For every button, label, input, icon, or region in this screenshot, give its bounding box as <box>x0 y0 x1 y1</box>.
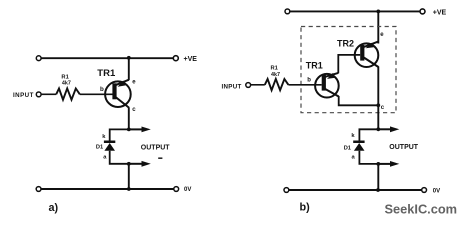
arrow upper output (b) <box>390 126 399 132</box>
wire: +VE top rail (b) <box>290 10 421 12</box>
terminal +VE right open circle (b) <box>420 9 425 14</box>
terminal +VE left open circle (b) <box>285 9 290 14</box>
junction dot on 0V rail (a) <box>127 187 131 191</box>
transistor TR2 base bar (b) <box>360 45 364 61</box>
svg-text:TR1: TR1 <box>306 61 323 71</box>
wire: diode anode to lower node (b) <box>359 151 378 164</box>
wire: collector down to output node (a) <box>128 107 130 129</box>
svg-text:+VE: +VE <box>184 56 198 63</box>
transistor TR1 base bar (a) <box>112 83 116 99</box>
diode D1 triangle (a) <box>104 143 115 151</box>
terminal 0V right open circle (b) <box>422 188 427 193</box>
svg-text:e: e <box>380 32 384 38</box>
svg-text:c: c <box>132 107 136 113</box>
terminal 0V right open circle (a) <box>174 187 179 192</box>
junction dot on +VE rail (a) <box>127 56 131 60</box>
dashed box around darlington pair <box>301 27 396 113</box>
transistor TR1 emitter lead (b) <box>325 73 338 77</box>
wire: upper output stub (a) <box>129 128 142 130</box>
wire: lower node to 0V rail (a) <box>128 164 130 189</box>
svg-text:b: b <box>307 78 311 84</box>
wire: upper output stub (b) <box>378 128 390 130</box>
junction dot on +VE rail (b) <box>376 10 380 14</box>
wire: diode anode to lower node (a) <box>110 151 129 164</box>
transistor TR1 collector lead (b) <box>325 89 339 97</box>
junction dot on 0V rail (b) <box>376 188 380 192</box>
svg-text:a: a <box>352 154 356 160</box>
diode D1 triangle (b) <box>354 143 365 151</box>
wire: lower output stub (a) <box>129 163 142 165</box>
svg-text:+VE: +VE <box>433 9 447 16</box>
wire: resistor to base of TR1 (a) <box>80 93 113 95</box>
transistor TR2 emitter arrow (b) <box>366 43 374 49</box>
terminal +VE right open circle (a) <box>173 56 178 61</box>
svg-text:b): b) <box>300 202 311 214</box>
wire: upper node to diode (a) <box>110 129 129 140</box>
wire: TR1 emitter up to TR2 base (b) <box>338 55 360 73</box>
wire: lower node to 0V rail (b) <box>377 164 379 190</box>
wire: +VE rail down to TR2 emitter (b) <box>377 11 379 43</box>
svg-text:INPUT: INPUT <box>13 92 34 99</box>
resistor R1 4k7 (b) <box>265 79 289 90</box>
transistor TR1 emitter arrow (b) <box>327 73 335 79</box>
wire: input to resistor (b) <box>251 84 265 86</box>
svg-text:e: e <box>132 79 136 85</box>
svg-text:SeekIC.com: SeekIC.com <box>385 202 458 217</box>
wire: lower output stub (b) <box>378 163 390 165</box>
transistor TR1 emitter arrow (a) <box>118 81 126 87</box>
svg-text:0V: 0V <box>433 189 440 195</box>
diode D1 cathode bar (b) <box>353 141 364 144</box>
transistor TR1 (a) PNP circle <box>105 81 131 107</box>
wire: 0V bottom rail (a) <box>41 188 174 190</box>
svg-text:k: k <box>102 134 106 140</box>
arrow lower output (a) <box>142 161 151 167</box>
diode D1 cathode bar (a) <box>104 141 115 144</box>
wire: emitter to +VE rail (a) <box>128 58 130 80</box>
transistor TR2 (b) PNP circle <box>355 43 379 67</box>
wire: resistor to base of TR1 (b) <box>288 84 321 86</box>
transistor TR2 emitter lead (b) <box>364 41 379 47</box>
wire: 0V bottom rail (b) <box>289 189 422 191</box>
junction dot lower output (b) <box>376 162 380 166</box>
terminal 0V left open circle (b) <box>284 188 289 193</box>
wire: upper node to diode (b) <box>359 129 378 140</box>
terminal 0V left open circle (a) <box>36 187 41 192</box>
wire: +VE top rail (a) <box>41 57 174 59</box>
arrow upper output (a) <box>142 127 151 133</box>
svg-text:a: a <box>103 155 107 161</box>
svg-text:4k7: 4k7 <box>271 72 280 78</box>
transistor TR1 collector lead (a) <box>116 97 129 107</box>
svg-text:k: k <box>351 133 355 139</box>
label minus polarity (a) <box>158 157 162 159</box>
svg-text:D1: D1 <box>344 146 351 152</box>
transistor TR1 (b) PNP circle <box>315 74 339 98</box>
junction dot lower output (a) <box>127 162 131 166</box>
svg-text:TR2: TR2 <box>337 39 354 49</box>
wire: TR1 collector to common collector node (b) <box>339 96 379 105</box>
terminal INPUT open circle (a) <box>36 92 41 97</box>
svg-text:a): a) <box>49 202 59 214</box>
arrow lower output (b) <box>390 161 399 167</box>
resistor R1 4k7 (a) <box>56 88 80 99</box>
svg-text:c: c <box>381 105 385 111</box>
terminal INPUT open circle (b) <box>246 83 251 88</box>
svg-text:0V: 0V <box>184 187 191 193</box>
svg-text:b: b <box>100 86 104 93</box>
svg-text:INPUT: INPUT <box>222 84 242 91</box>
terminal +VE left open circle (a) <box>36 56 41 61</box>
svg-text:R1: R1 <box>271 66 279 72</box>
svg-text:D1: D1 <box>96 144 103 150</box>
svg-text:TR1: TR1 <box>97 68 116 79</box>
transistor TR1 emitter lead (a) <box>116 80 129 85</box>
junction dot upper output (a) <box>127 127 131 131</box>
junction dot upper output (b) <box>376 127 380 131</box>
svg-text:OUTPUT: OUTPUT <box>141 144 171 151</box>
transistor TR1 base bar (b) <box>322 75 326 91</box>
transistor TR2 collector lead (b) <box>364 58 379 68</box>
svg-text:OUTPUT: OUTPUT <box>389 144 419 151</box>
wire: TR2 collector down to node c (b) <box>377 67 379 130</box>
junction dot collector node (b) <box>376 103 380 107</box>
wire: input to resistor (a) <box>41 93 56 95</box>
svg-text:4k7: 4k7 <box>62 81 71 87</box>
